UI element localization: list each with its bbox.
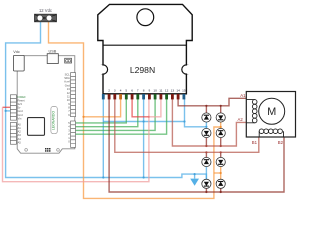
svg-text:A1: A1 bbox=[240, 93, 246, 98]
svg-text:12: 12 bbox=[67, 91, 70, 95]
op chip U1 L298N multiwatt package bbox=[97, 4, 192, 93]
diode D7 (B2 low clamp) bbox=[202, 179, 211, 188]
wire diode column stubs right bbox=[220, 106, 222, 192]
svg-text:B2: B2 bbox=[278, 140, 284, 145]
svg-text:Gnd: Gnd bbox=[65, 83, 71, 87]
Arduino right header lower bbox=[71, 121, 76, 147]
wire OUT nets A2,B1 (light brick) bbox=[115, 98, 259, 152]
tab/body separation line bbox=[103, 44, 186, 46]
diode D4 (A2 high clamp) bbox=[216, 128, 225, 137]
svg-text:SCL: SCL bbox=[65, 72, 71, 76]
wire orange mid rows3-4 bbox=[214, 172, 221, 174]
svg-text:Gnd: Gnd bbox=[18, 113, 24, 117]
svg-text:Reset: Reset bbox=[18, 98, 25, 102]
diode D6 (B1 high clamp) bbox=[216, 157, 225, 166]
diode D1 (A1 low clamp) bbox=[202, 113, 211, 122]
wire Arduino D to L298N pin7 bbox=[72, 98, 138, 126]
svg-text:A0: A0 bbox=[18, 122, 22, 126]
wire +12V net (orange) bbox=[49, 18, 221, 198]
Arduino right header upper bbox=[71, 73, 76, 117]
coil B bbox=[259, 131, 283, 137]
wire Arduino D to L298N pin5 bbox=[72, 98, 126, 123]
svg-text:USB: USB bbox=[49, 49, 57, 53]
USB connector bbox=[47, 54, 58, 64]
fiducial icon bbox=[65, 58, 72, 63]
diode D3 (A2 low clamp) bbox=[202, 128, 211, 137]
diode D8 (B2 high clamp) bbox=[216, 179, 225, 188]
Arduino left header lower (analog pins) bbox=[10, 123, 16, 145]
mounting holes bbox=[25, 149, 28, 152]
svg-text:IOREF: IOREF bbox=[18, 95, 27, 99]
Arduino Leonardo board bbox=[13, 49, 75, 153]
rotor circle M bbox=[259, 98, 285, 124]
wire diode column stubs left bbox=[205, 106, 207, 192]
wire ground stem bbox=[194, 174, 196, 179]
tab bbox=[98, 4, 192, 93]
power jack bbox=[13, 55, 24, 71]
wire 12V+ down right and to diode mids bbox=[49, 18, 221, 198]
node red junctions bbox=[12, 106, 150, 118]
wire branch to L298N pin4 VS bbox=[84, 98, 121, 116]
svg-text:11: 11 bbox=[159, 89, 162, 93]
wire GND net (light blue) bbox=[6, 18, 207, 179]
wire pin11 enable B to 5V bbox=[149, 98, 161, 116]
svg-text:M: M bbox=[267, 106, 276, 118]
svg-text:5: 5 bbox=[125, 89, 127, 93]
diode D2 (A1 high clamp) bbox=[216, 113, 225, 122]
wire Arduino D to L298N pin12 bbox=[72, 98, 167, 134]
wire 12V- to left rail to diode column bbox=[6, 18, 207, 179]
ICSP header bbox=[45, 148, 51, 152]
svg-text:8: 8 bbox=[143, 89, 145, 93]
wire L298N pin1 to GND rail bbox=[102, 98, 104, 177]
node green junctions bbox=[71, 122, 73, 135]
wire 5V net (pale pink) bbox=[3, 98, 161, 181]
wire L298N pin8 to GND rail bbox=[143, 98, 145, 177]
svg-text:A2: A2 bbox=[18, 130, 22, 134]
wire pin14 to motor A1 bbox=[178, 98, 246, 106]
svg-text:12: 12 bbox=[165, 89, 169, 93]
svg-text:B1: B1 bbox=[252, 140, 258, 145]
svg-text:1: 1 bbox=[102, 89, 104, 93]
wire left diode column mid segments (GND) bbox=[205, 122, 207, 179]
tab hole bbox=[137, 9, 154, 26]
svg-text:12 Vdc: 12 Vdc bbox=[39, 8, 52, 13]
L298N pads pin1..15 bbox=[102, 94, 185, 99]
svg-text:A1: A1 bbox=[18, 126, 22, 130]
svg-text:10: 10 bbox=[67, 98, 70, 102]
svg-text:SDA: SDA bbox=[64, 76, 70, 80]
wire pin13 to motor A2 bbox=[172, 98, 246, 146]
node brick junctions bbox=[205, 145, 222, 154]
svg-text:Vin: Vin bbox=[18, 116, 22, 120]
svg-text:15: 15 bbox=[182, 89, 186, 93]
svg-text:7: 7 bbox=[137, 89, 139, 93]
svg-text:3v3: 3v3 bbox=[18, 102, 23, 106]
svg-text:9: 9 bbox=[149, 89, 151, 93]
wire branch to Arduino Gnd pin bbox=[6, 110, 13, 112]
svg-text:4: 4 bbox=[120, 89, 122, 93]
wire pin3 to motor B1 bbox=[115, 98, 259, 152]
svg-text:A5: A5 bbox=[18, 140, 22, 144]
svg-text:11: 11 bbox=[67, 94, 70, 98]
node maroon junctions bbox=[205, 105, 222, 193]
ground bbox=[190, 179, 199, 186]
svg-text:14: 14 bbox=[176, 89, 180, 93]
notch left bbox=[98, 65, 107, 74]
wire control nets (green) bbox=[72, 98, 167, 134]
wire Arduino 5v pin stub bbox=[3, 106, 14, 108]
svg-text:A.ref: A.ref bbox=[64, 80, 70, 84]
svg-text:A3: A3 bbox=[18, 133, 22, 137]
svg-text:10: 10 bbox=[153, 89, 157, 93]
svg-text:Vdc: Vdc bbox=[13, 50, 20, 54]
wire Arduino 5v down left and along bottom to pin9 bbox=[3, 98, 149, 181]
node blue junctions bbox=[5, 110, 208, 179]
svg-text:Gnd: Gnd bbox=[18, 109, 24, 113]
svg-text:LEONARDO: LEONARDO bbox=[52, 111, 56, 130]
node orange junctions bbox=[82, 116, 221, 174]
motor M1 stepper bbox=[246, 92, 295, 138]
diode D5 (B1 low clamp) bbox=[202, 157, 211, 166]
svg-text:A4: A4 bbox=[18, 137, 22, 141]
wire right diode column mid segments (+12V) bbox=[220, 122, 222, 179]
svg-text:L298N: L298N bbox=[130, 65, 155, 75]
wire OUT nets A1,B2 (maroon) bbox=[109, 98, 284, 192]
svg-text:6: 6 bbox=[131, 89, 133, 93]
Arduino left header upper (power pins) bbox=[10, 95, 16, 120]
svg-text:13: 13 bbox=[67, 87, 70, 91]
notch right bbox=[182, 65, 191, 74]
svg-text:A2: A2 bbox=[238, 117, 244, 122]
LEONARDO label bbox=[51, 106, 57, 133]
wire pin2 to motor B2 bbox=[109, 98, 284, 192]
L298N pin numbers bbox=[102, 89, 185, 93]
chip U ATmega bbox=[28, 118, 45, 136]
wire L298N pin15 and sense link bbox=[103, 98, 206, 126]
coil A bbox=[246, 100, 254, 123]
wire Arduino D to L298N pin10 bbox=[72, 98, 155, 130]
svg-text:3: 3 bbox=[114, 89, 116, 93]
svg-text:2: 2 bbox=[108, 89, 110, 93]
svg-text:13: 13 bbox=[171, 89, 175, 93]
connector J1 12Vdc terminal block bbox=[35, 8, 57, 22]
wire enable net pin6-pin11 (red) bbox=[3, 98, 149, 116]
